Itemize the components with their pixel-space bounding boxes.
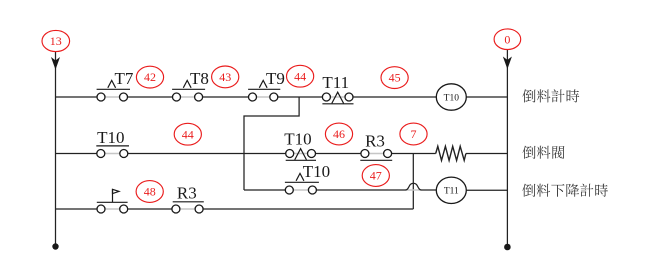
svg-text:R3: R3	[365, 132, 385, 151]
svg-text:44: 44	[294, 69, 306, 83]
svg-text:T7: T7	[115, 69, 134, 88]
svg-text:T10: T10	[97, 128, 124, 147]
svg-text:T11: T11	[444, 187, 459, 197]
svg-text:T9: T9	[266, 69, 285, 88]
svg-text:48: 48	[144, 185, 156, 199]
svg-text:0: 0	[504, 32, 510, 46]
svg-text:43: 43	[219, 70, 231, 84]
svg-text:44: 44	[182, 127, 194, 141]
svg-text:42: 42	[144, 70, 156, 84]
svg-text:T10: T10	[444, 93, 460, 103]
svg-text:T10: T10	[303, 162, 330, 181]
svg-text:T10: T10	[284, 130, 311, 149]
svg-text:R3: R3	[177, 183, 197, 202]
svg-text:13: 13	[50, 34, 62, 48]
svg-text:7: 7	[411, 127, 417, 141]
svg-text:46: 46	[333, 127, 345, 141]
svg-text:T8: T8	[190, 69, 209, 88]
svg-text:T11: T11	[322, 73, 349, 92]
svg-text:47: 47	[370, 169, 382, 183]
svg-text:45: 45	[389, 71, 401, 85]
